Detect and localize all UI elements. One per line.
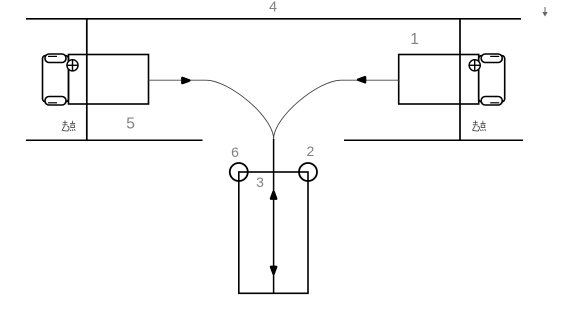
left-pointing arrowhead on right path [358,77,365,82]
svg-text:6: 6 [231,144,239,160]
right vehicle body [399,55,479,105]
lower-left road edge line [26,139,203,141]
top wheel [45,54,66,63]
right boundary vertical line [459,18,461,141]
right vehicle top wheel [481,54,502,63]
up arrowhead on center line [271,192,276,199]
down arrow top-right [542,7,547,17]
right vehicle cab [479,56,505,102]
qidian (start point) text right [473,121,486,131]
circle 6 (left pole) [230,163,248,181]
bottom wheel [45,97,66,106]
top road edge line [26,18,521,20]
circle 2 (right pole) [299,163,317,181]
left boundary vertical line [86,18,88,141]
right vehicle steering wheel [469,60,480,71]
right-pointing arrowhead on left path [182,78,189,83]
lower-right road edge line [344,139,523,141]
qidian (start point) text left [62,121,75,131]
svg-text:3: 3 [256,174,264,190]
left vehicle [43,54,149,105]
cab [43,56,69,102]
steering wheel [67,60,78,71]
down arrowhead on center line [271,267,276,274]
svg-text:5: 5 [126,115,135,132]
right vehicle bottom wheel [481,97,502,106]
right vehicle (mirror) [399,54,505,105]
svg-text:1: 1 [410,31,419,48]
center vertical path line [273,139,275,293]
right path curve [274,80,399,139]
svg-text:2: 2 [307,143,315,159]
bottom box (garage) [239,172,308,293]
body [69,55,149,105]
svg-text:4: 4 [269,0,277,16]
left path curve [149,80,274,139]
